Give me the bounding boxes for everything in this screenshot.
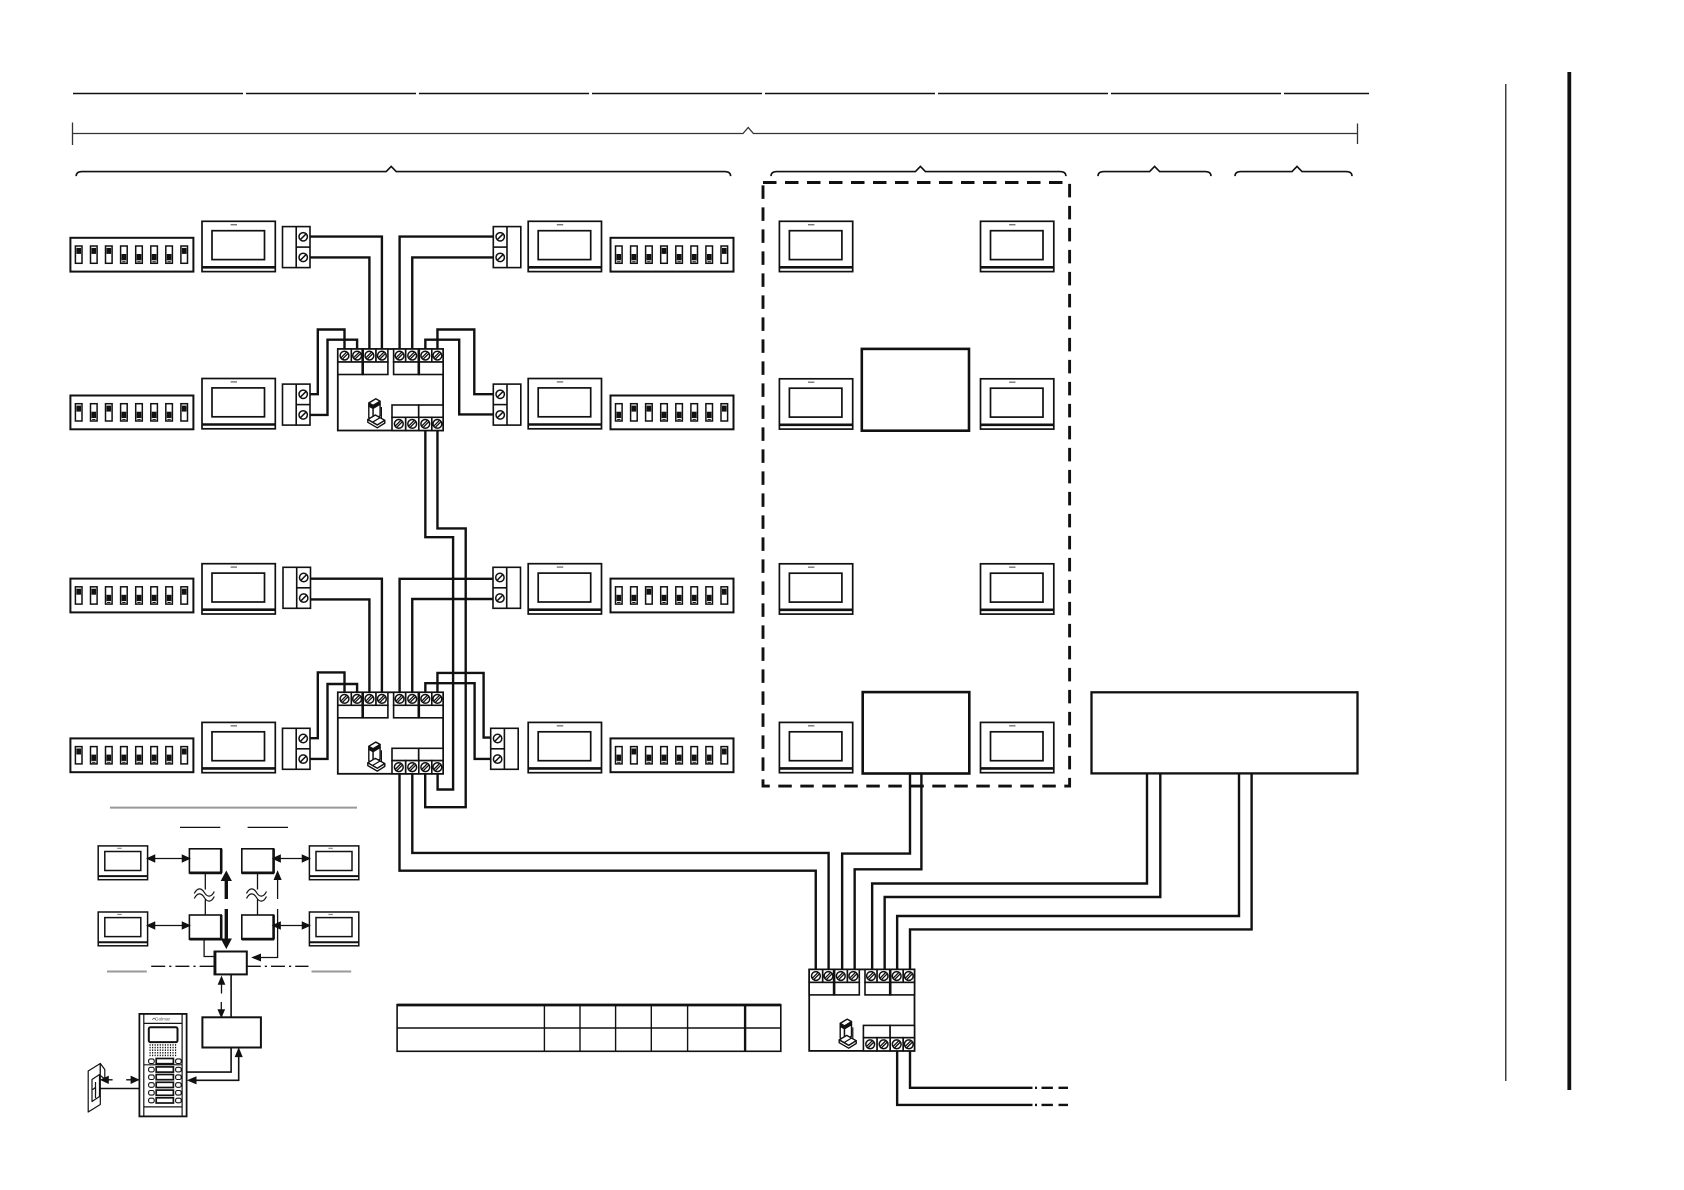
wire riser hub D1 bottom 3 to hub D2 bottom 4 bbox=[425, 431, 453, 790]
wire continuation dashes lower right (upper) bbox=[1035, 1087, 1068, 1089]
reference table bbox=[397, 1005, 781, 1052]
adapter box B4 bbox=[242, 915, 274, 939]
terminal row D left bbox=[283, 728, 311, 769]
wire A-right terminal 1 to hub D1 in5 bbox=[400, 237, 494, 349]
distributor hub D3 (bottom) bbox=[809, 969, 914, 1051]
arrow M1-B1 bbox=[148, 855, 190, 861]
adapter box B1 bbox=[189, 849, 221, 873]
brace: group 4 bbox=[1235, 166, 1352, 176]
adapter box B2 bbox=[242, 849, 274, 873]
wire continuation dashes lower right (lower) bbox=[1035, 1104, 1068, 1106]
wire right box to hub D3 in6 bbox=[885, 773, 1161, 969]
wire hub D1 out8 to B-right terminal 1 bbox=[437, 330, 493, 395]
mini monitor M4 bbox=[309, 912, 358, 946]
wire hub D2 bottom 2 to hub D3 in2 bbox=[412, 774, 828, 970]
wire right box to hub D3 in7 bbox=[897, 773, 1239, 969]
door entry panel bbox=[139, 1014, 186, 1117]
right thin vertical rule bbox=[1505, 84, 1507, 1081]
terminal row A right bbox=[493, 227, 521, 268]
monitor row C right bbox=[528, 564, 601, 614]
svg-text:Golmar: Golmar bbox=[155, 1017, 171, 1022]
monitor dashed row C left bbox=[779, 564, 852, 614]
monitor row A right bbox=[528, 221, 601, 271]
monitor dashed row D left bbox=[779, 722, 852, 772]
monitor dashed row B left bbox=[779, 379, 852, 429]
monitor dashed row A left bbox=[779, 221, 852, 271]
mini monitor M1 bbox=[98, 846, 147, 880]
monitor dashed row B right bbox=[981, 379, 1054, 429]
arrow door-panel right part bbox=[126, 1076, 138, 1083]
wire riser hub D1 bottom 4 to hub D2 bottom 3 bbox=[425, 431, 466, 808]
wire hub D3 bottom 3 going down-right bbox=[897, 1051, 1032, 1105]
monitor row D left bbox=[202, 722, 275, 772]
wire A-right terminal 2 to hub D1 in6 bbox=[412, 257, 493, 349]
dashed enclosure box bbox=[763, 183, 1070, 787]
terminal row C right bbox=[493, 567, 521, 608]
wire C-left terminal 2 to hub D2 in3 bbox=[311, 599, 370, 692]
gateway box bbox=[215, 952, 247, 975]
monitor dashed row D right bbox=[981, 722, 1054, 772]
wire hub D1 out7 to B-right terminal 2 bbox=[425, 340, 493, 415]
wire hub D2 out8 to D-right terminal 1 bbox=[437, 673, 490, 738]
wire right box to hub D3 in5 bbox=[872, 773, 1147, 969]
wire door panel to power box with arrows bbox=[188, 1049, 242, 1084]
link line B1-B3 bbox=[204, 873, 206, 890]
link line B3 down into gateway bbox=[204, 940, 214, 957]
arrow B2-M2 bbox=[273, 855, 309, 861]
right column line into gateway with left arrow bbox=[253, 909, 278, 961]
wire right box to hub D3 in8 bbox=[910, 773, 1252, 969]
blank box inside dashed area (upper) bbox=[862, 349, 969, 431]
wire A-left terminal 2 to hub D1 in3 bbox=[310, 257, 369, 349]
wire C-left terminal 1 to hub D2 in4 bbox=[311, 579, 382, 693]
wire hub D2 bottom 1 to hub D3 in1 bbox=[400, 774, 816, 970]
sub-diagram heading underline left bbox=[180, 826, 220, 828]
wire hub D1 out1 to B-left terminal 1 bbox=[310, 330, 345, 395]
wire power box to door panel bbox=[187, 1048, 231, 1073]
DIP switch block row C left bbox=[70, 579, 193, 613]
monitor dashed row A right bbox=[981, 221, 1054, 271]
dash-dot line right of gateway bbox=[247, 965, 309, 967]
arrow M3-B3 bbox=[148, 922, 190, 928]
DIP switch block row A right bbox=[611, 238, 734, 272]
sub-diagram heading underline right bbox=[248, 826, 288, 828]
power box bbox=[202, 1017, 261, 1047]
adapter box B3 bbox=[189, 915, 221, 939]
terminal row B left bbox=[283, 384, 311, 425]
DIP switch block row B left bbox=[70, 396, 193, 430]
wire lower blank box to hub D3 in4 bbox=[855, 774, 922, 970]
monitor row B right bbox=[528, 379, 601, 429]
line door to panel bbox=[99, 1088, 139, 1090]
mini monitor M2 bbox=[309, 846, 358, 880]
wire hub D2 out2 to D-left terminal 2 bbox=[310, 684, 357, 759]
sub-diagram grey top rule bbox=[110, 807, 357, 809]
thick up arrow left column bbox=[222, 872, 232, 900]
terminal row A left bbox=[283, 227, 311, 268]
monitor row A left bbox=[202, 221, 275, 271]
wire C-right terminal 1 to hub D2 in5 bbox=[400, 579, 493, 693]
wire hub D1 out2 to B-left terminal 2 bbox=[310, 340, 357, 415]
small down arrow beside line bbox=[218, 1002, 224, 1017]
small up arrow beside line bbox=[218, 977, 224, 994]
monitor dashed row C right bbox=[981, 564, 1054, 614]
right large blank box bbox=[1092, 692, 1358, 773]
link line B2-B4 bbox=[257, 873, 259, 890]
mini monitor M3 bbox=[98, 912, 147, 946]
wire hub D2 out1 to D-left terminal 1 bbox=[310, 672, 345, 738]
terminal row C left bbox=[283, 567, 311, 608]
grey rule lower left bbox=[107, 971, 147, 973]
brace: dashed-box group bbox=[771, 166, 1066, 176]
monitor row B left bbox=[202, 379, 275, 429]
thin up arrow right column bbox=[274, 872, 281, 900]
right thick vertical rule bbox=[1567, 72, 1571, 1090]
DIP switch block row B right bbox=[611, 396, 734, 430]
brace: group 3 bbox=[1098, 166, 1211, 176]
DIP switch block row A left bbox=[70, 238, 193, 272]
line gateway to power box bbox=[230, 974, 232, 1017]
DIP switch block row D right bbox=[611, 738, 734, 772]
wire hub D2 out7 to D-right terminal 2 bbox=[425, 683, 490, 759]
distributor hub D2 bbox=[338, 692, 443, 774]
wire C-right terminal 2 to hub D2 in6 bbox=[412, 599, 493, 692]
arrow door-panel left part bbox=[101, 1076, 113, 1083]
blank box inside dashed area (lower) bbox=[863, 692, 970, 773]
electric lock striker (door) bbox=[88, 1064, 105, 1113]
DIP switch block row C right bbox=[611, 579, 734, 613]
monitor row D right bbox=[528, 722, 601, 772]
terminal row B right bbox=[493, 384, 521, 425]
monitor row C left bbox=[202, 564, 275, 614]
DIP switch block row D left bbox=[70, 738, 193, 772]
wire A-left terminal 1 to hub D1 in4 bbox=[310, 237, 382, 349]
wire lower blank box to hub D3 in3 bbox=[842, 774, 910, 970]
arrow B4-M4 bbox=[273, 922, 309, 928]
top rule line 2 with end ticks and centre peak bbox=[73, 123, 1358, 146]
terminal row D right bbox=[491, 728, 519, 769]
wire hub D3 bottom 4 going down-right bbox=[910, 1051, 1033, 1088]
distributor hub D1 bbox=[338, 349, 443, 431]
brace: left riser group bbox=[76, 166, 730, 176]
dash-dot line left of gateway bbox=[151, 965, 214, 967]
grey rule lower right bbox=[312, 971, 352, 973]
top rule line 1 bbox=[73, 93, 1369, 95]
thick down arrow left column bbox=[222, 909, 232, 948]
